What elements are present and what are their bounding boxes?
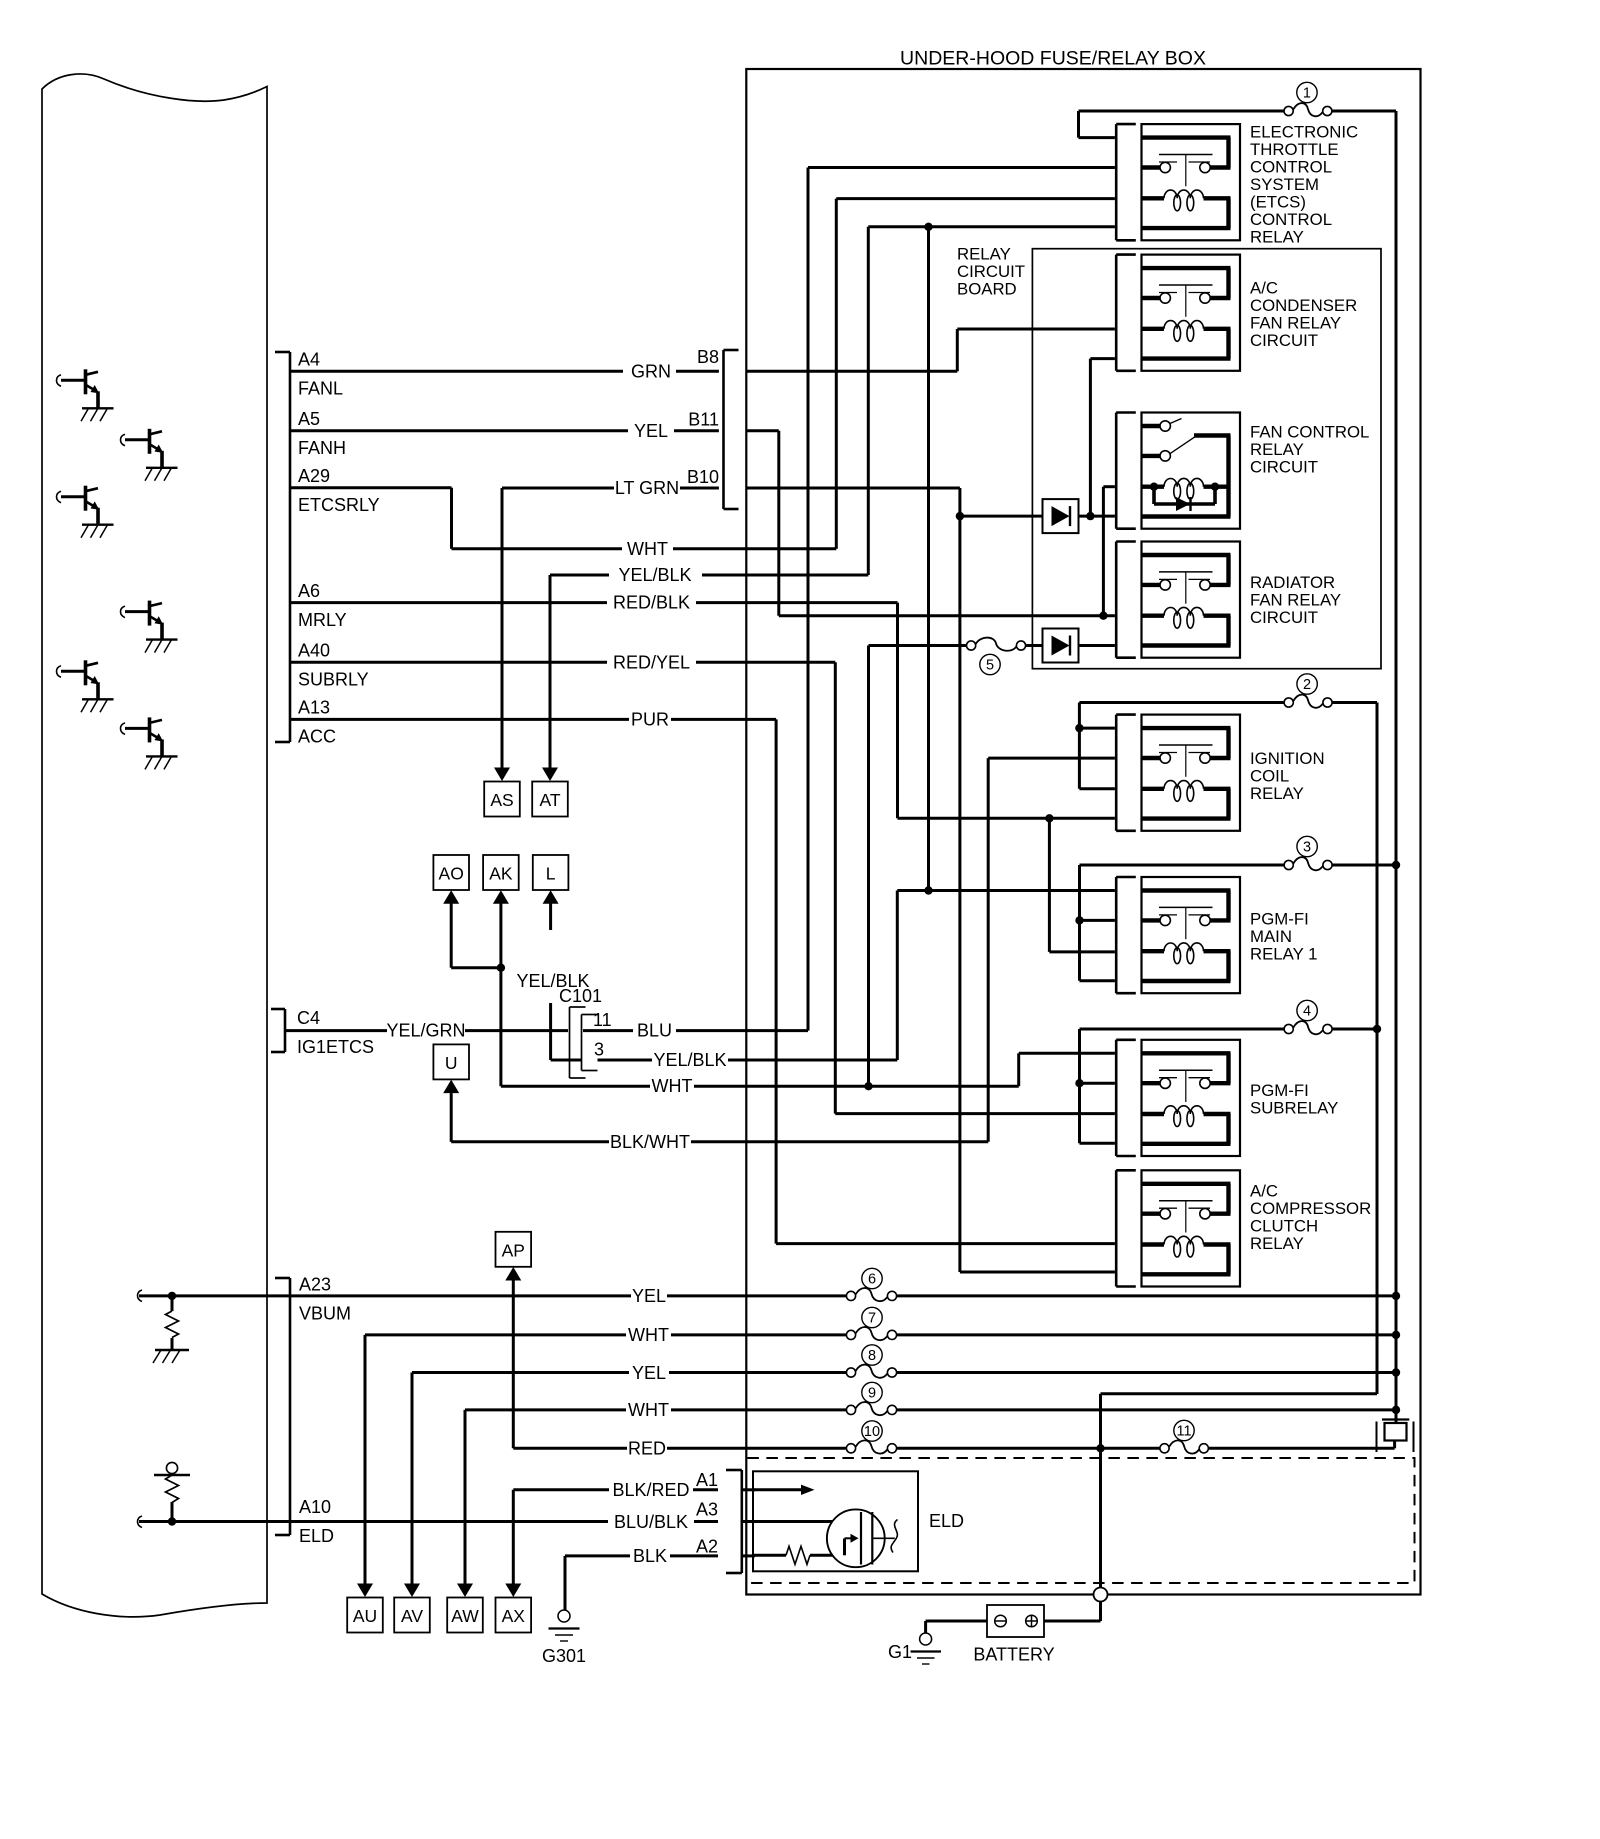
svg-text:AU: AU — [353, 1606, 377, 1626]
radiator fan relay internal feed path — [1142, 553, 1231, 557]
wire YEL row to fuse 8 — [411, 1373, 414, 1591]
fuse 11 — [1160, 1444, 1169, 1453]
svg-text:ELD: ELD — [299, 1526, 334, 1546]
ELD sense resistor with pull-up — [138, 1516, 143, 1528]
transistor Q2 (FANH driver) — [148, 429, 152, 454]
fuse 1 — [1284, 106, 1293, 115]
ground G1 — [920, 1633, 932, 1645]
ignition coil relay coil — [1164, 781, 1203, 789]
ignition coil relay coil feed path — [1142, 787, 1165, 791]
wire YEL/BLK (C101 pin 3) row — [551, 1059, 582, 1062]
svg-text:A3: A3 — [696, 1500, 718, 1520]
svg-text:A29: A29 — [298, 466, 330, 486]
wire battery feed to sub-bus — [1101, 1392, 1378, 1395]
svg-text:ETCSRLY: ETCSRLY — [298, 495, 380, 515]
ECM connector C4 bracket — [284, 1009, 287, 1052]
fan control relay outline — [1142, 413, 1241, 529]
wire WHT jog up to PGM-FI subrelay pin 1 — [1017, 1053, 1020, 1086]
A/C condenser fan relay coil — [1164, 321, 1203, 329]
svg-text:BLK/RED: BLK/RED — [612, 1480, 689, 1500]
wire BLK row — [564, 1556, 567, 1610]
wire RED row through fuse 11 — [1101, 1447, 1160, 1450]
ignition coil relay internal feed path — [1142, 726, 1231, 730]
svg-text:6: 6 — [868, 1272, 876, 1288]
svg-text:PGM-FI: PGM-FI — [1250, 1081, 1309, 1100]
svg-text:AK: AK — [489, 864, 513, 884]
wire PUR riser down to A/C compressor clutch relay coil — [775, 719, 778, 1243]
svg-text:CIRCUIT: CIRCUIT — [1250, 458, 1318, 477]
svg-text:CONTROL: CONTROL — [1250, 157, 1332, 176]
svg-text:WHT: WHT — [628, 1400, 669, 1420]
PGM-FI main relay 1 connector bracket — [1115, 877, 1118, 993]
svg-text:UNDER-HOOD FUSE/RELAY BOX: UNDER-HOOD FUSE/RELAY BOX — [900, 48, 1206, 70]
svg-text:A23: A23 — [299, 1275, 331, 1295]
svg-text:CONTROL: CONTROL — [1250, 210, 1332, 229]
wire BLU/BLK row (A10 ELD) — [290, 1520, 608, 1523]
in-line connector square to battery bus — [1395, 1410, 1398, 1423]
battery positive feed vertical — [1099, 1394, 1102, 1449]
fuse 8 — [846, 1368, 855, 1377]
svg-text:MRLY: MRLY — [298, 610, 347, 630]
fan control relay coil feed path — [1142, 485, 1165, 489]
radiator fan relay contact — [1160, 580, 1170, 590]
ground for Q3 (ETCSRLY driver) — [82, 524, 114, 526]
transistor Q5 (SUBRLY driver) — [84, 660, 88, 685]
wire U shaft down to BLK/WHT row — [450, 1093, 453, 1142]
radiator fan relay coil feed path — [1142, 614, 1165, 618]
svg-text:7: 7 — [868, 1311, 876, 1327]
wire LT GRN (A29 ETCSRLY) row — [502, 487, 614, 490]
svg-text:RELAY: RELAY — [1250, 228, 1304, 247]
fuse 5 — [967, 641, 976, 650]
svg-text:YEL/GRN: YEL/GRN — [386, 1021, 465, 1041]
svg-text:A10: A10 — [299, 1497, 331, 1517]
ground for Q4 (MRLY driver) — [146, 638, 178, 640]
wire YEL inside box to radiator fan relay coil — [746, 429, 779, 432]
svg-text:10: 10 — [864, 1424, 880, 1440]
svg-text:CONDENSER: CONDENSER — [1250, 296, 1357, 315]
svg-text:A2: A2 — [696, 1537, 718, 1557]
transistor Q3 (ETCSRLY driver) — [84, 486, 88, 511]
svg-text:MAIN: MAIN — [1250, 927, 1292, 946]
svg-text:11: 11 — [593, 1010, 612, 1030]
ELD A1 arrow — [753, 1488, 802, 1491]
svg-text:RELAY: RELAY — [1250, 784, 1304, 803]
connector AU — [347, 1598, 383, 1633]
svg-text:C4: C4 — [297, 1008, 320, 1028]
wire battery positive — [1044, 1620, 1101, 1623]
svg-text:B8: B8 — [697, 347, 719, 367]
connector AO — [433, 855, 469, 890]
wire BLK/WHT riser to ignition coil relay pin 2 — [987, 758, 990, 1142]
wire YEL/BLK down to AT connector — [549, 575, 552, 768]
ETCS control relay internal feed path — [1142, 135, 1231, 139]
wire GRN inside box to A/C condenser fan relay coil — [746, 370, 957, 373]
svg-text:BATTERY: BATTERY — [973, 1645, 1054, 1665]
fuse 4 — [1284, 1024, 1293, 1033]
svg-text:RELAY: RELAY — [957, 244, 1011, 263]
svg-text:A/C: A/C — [1250, 1181, 1278, 1200]
svg-text:AS: AS — [490, 790, 513, 810]
svg-text:WHT: WHT — [652, 1076, 693, 1096]
connector AV — [394, 1598, 430, 1633]
wire RED/BLK (A6 MRLY) row — [290, 601, 607, 604]
svg-text:YEL/BLK: YEL/BLK — [618, 565, 691, 585]
wire ETCS pin4 bus down to main relay pin 1 — [927, 227, 930, 891]
diode D3 across fan control relay coil — [1150, 483, 1158, 491]
battery feed open junction on box edge — [1094, 1588, 1108, 1602]
svg-text:A/C: A/C — [1250, 279, 1278, 298]
ETCS control relay coil feed path — [1142, 196, 1165, 200]
ETCS control relay coil — [1164, 190, 1203, 198]
svg-text:FAN RELAY: FAN RELAY — [1250, 591, 1341, 610]
wire battery negative to G1 — [926, 1620, 987, 1623]
wire fuse 2 to battery sub-bus — [1332, 701, 1377, 704]
wire RED/YEL (A40 SUBRLY) row — [290, 661, 607, 664]
ground for Q5 (SUBRLY driver) — [82, 698, 114, 700]
svg-text:3: 3 — [594, 1040, 604, 1060]
wire WHT row to fuse 7 — [364, 1335, 367, 1590]
wire AO branch — [450, 904, 453, 968]
PGM-FI main relay 1 contact — [1160, 915, 1170, 925]
PGM-FI main relay 1 coil — [1164, 943, 1203, 951]
fan control relay contact — [1160, 421, 1170, 431]
A/C compressor clutch relay coil — [1164, 1236, 1203, 1244]
svg-text:A40: A40 — [298, 641, 330, 661]
svg-text:BOARD: BOARD — [957, 279, 1017, 298]
wire WHT (ETCS relay coil) row — [452, 547, 623, 550]
wire branch ignition relay to PGM-FI main relay coil — [1048, 818, 1051, 952]
svg-text:ELD: ELD — [929, 1511, 964, 1531]
ELD A3 wire to sensor gate — [753, 1520, 861, 1523]
svg-text:(ETCS): (ETCS) — [1250, 192, 1306, 211]
svg-text:RED/BLK: RED/BLK — [613, 593, 690, 613]
svg-text:5: 5 — [986, 658, 994, 674]
A/C compressor clutch relay connector bracket — [1115, 1170, 1118, 1286]
A/C condenser fan relay coil feed path — [1142, 327, 1165, 331]
battery — [987, 1605, 1044, 1637]
svg-text:B11: B11 — [688, 410, 719, 430]
wire RED/YEL riser down to PGM-FI subrelay coil — [834, 662, 837, 1113]
svg-text:FANL: FANL — [298, 379, 343, 399]
wire YEL (A23 VBUM) row — [290, 1294, 631, 1297]
svg-text:CIRCUIT: CIRCUIT — [1250, 331, 1318, 350]
wire GRN (A4 FANL) row — [290, 370, 623, 373]
connector AK — [483, 855, 519, 890]
wire fuse 1 to battery bus — [1332, 110, 1396, 113]
svg-text:SUBRLY: SUBRLY — [298, 670, 369, 690]
wire WHT row to fuse 9 — [464, 1410, 467, 1590]
svg-text:9: 9 — [868, 1386, 876, 1402]
connector AX — [496, 1598, 532, 1633]
relay circuit board outline — [1032, 249, 1381, 669]
svg-text:CIRCUIT: CIRCUIT — [1250, 608, 1318, 627]
svg-text:YEL: YEL — [634, 421, 668, 441]
fuse 3 — [1284, 860, 1293, 869]
svg-text:WHT: WHT — [627, 539, 668, 559]
PGM-FI subrelay internal feed path — [1142, 1051, 1231, 1055]
svg-text:IG1ETCS: IG1ETCS — [297, 1037, 374, 1057]
svg-text:3: 3 — [1303, 840, 1311, 856]
svg-text:AW: AW — [451, 1606, 479, 1626]
wire RED row to fuse 10 — [512, 1279, 515, 1448]
svg-text:COMPRESSOR: COMPRESSOR — [1250, 1199, 1371, 1218]
ECM connector A bracket (upper) — [289, 352, 292, 742]
diode D2 (radiator fan relay feed) — [1043, 629, 1079, 663]
A/C compressor clutch relay internal feed path — [1142, 1182, 1231, 1186]
ignition coil relay connector bracket — [1115, 715, 1118, 831]
fuse 7 — [846, 1330, 855, 1339]
ground for Q1 (FANL driver) — [82, 407, 114, 409]
ground G301 — [558, 1610, 570, 1622]
A/C compressor clutch relay coil feed path — [1142, 1242, 1165, 1246]
PGM-FI subrelay outline — [1142, 1040, 1241, 1156]
svg-text:AV: AV — [401, 1606, 423, 1626]
VBUM sense resistor to ground — [138, 1290, 143, 1302]
connector C101 — [569, 1007, 571, 1078]
fuse 2 feed loop to ignition coil relay — [1079, 701, 1284, 704]
svg-text:YEL: YEL — [632, 1286, 666, 1306]
ignition coil relay outline — [1142, 715, 1241, 831]
wire diode D1 row to fan control relay pin 4 — [960, 515, 1043, 518]
wire YEL/BLK riser to ETCS relay pin 4 — [867, 227, 870, 575]
wire RED/BLK riser down to ignition coil relay pin 4 — [896, 603, 899, 819]
svg-text:ACC: ACC — [298, 727, 336, 747]
svg-text:ELECTRONIC: ELECTRONIC — [1250, 122, 1358, 141]
transistor Q1 (FANL driver) — [84, 369, 88, 394]
svg-text:2: 2 — [1303, 677, 1311, 693]
wire fuse 3 to battery bus — [1332, 864, 1394, 867]
svg-text:AT: AT — [539, 790, 560, 810]
PGM-FI subrelay coil feed path — [1142, 1112, 1165, 1116]
svg-text:G301: G301 — [542, 1646, 586, 1666]
svg-text:SUBRELAY: SUBRELAY — [1250, 1098, 1338, 1117]
wire BLU / YEL-GRN (C4 IG1ETCS) row — [285, 1029, 387, 1032]
radiator fan relay coil — [1164, 607, 1203, 615]
PGM-FI subrelay connector bracket — [1115, 1040, 1118, 1156]
svg-text:RED: RED — [628, 1439, 666, 1459]
transistor Q6 (ACC driver) — [148, 717, 152, 742]
svg-text:FAN CONTROL: FAN CONTROL — [1250, 423, 1369, 442]
dashed ELD compartment outline — [747, 1458, 1414, 1583]
ground for VBUM resistor — [155, 1349, 189, 1351]
PGM-FI subrelay contact — [1160, 1078, 1170, 1088]
svg-text:AO: AO — [439, 864, 464, 884]
svg-text:G1: G1 — [888, 1642, 912, 1662]
fuse 9 — [846, 1405, 855, 1414]
A/C condenser fan relay outline — [1142, 255, 1241, 371]
svg-text:CIRCUIT: CIRCUIT — [957, 262, 1025, 281]
fan control relay coil — [1164, 478, 1203, 486]
svg-text:CLUTCH: CLUTCH — [1250, 1217, 1318, 1236]
svg-text:U: U — [445, 1053, 458, 1073]
A/C compressor clutch relay outline — [1142, 1170, 1241, 1286]
svg-text:B10: B10 — [687, 467, 719, 487]
fuse 2 — [1284, 698, 1293, 707]
wire WHT (AO/AK) row — [501, 1085, 650, 1088]
radiator fan relay outline — [1142, 542, 1241, 658]
svg-text:YEL/BLK: YEL/BLK — [653, 1050, 726, 1070]
fuse 4 feed loop to PGM-FI subrelay — [1080, 1028, 1285, 1031]
connector L — [533, 855, 569, 890]
ETCS control relay contact — [1160, 162, 1170, 172]
ELD sensor (hall element) — [827, 1509, 885, 1567]
radiator fan relay connector bracket — [1115, 542, 1118, 658]
ECM connector A bracket (lower) — [289, 1278, 292, 1535]
ground for Q2 (FANH driver) — [146, 467, 178, 469]
wire BLK/RED row — [512, 1490, 515, 1584]
fan control relay connector bracket — [1115, 413, 1118, 529]
wire L shaft down to C101 pin 3 — [549, 904, 552, 931]
connector AW — [447, 1598, 483, 1633]
wire BLK/WHT row — [451, 1140, 609, 1143]
svg-text:RELAY: RELAY — [1250, 440, 1304, 459]
ETCS control relay connector bracket — [1115, 124, 1118, 240]
wire fuse 4 to battery sub-bus — [1332, 1028, 1375, 1031]
svg-text:8: 8 — [868, 1348, 876, 1364]
svg-text:YEL/BLK: YEL/BLK — [516, 971, 589, 991]
fuse 1 feed loop to ETCS relay pin 1 — [1079, 110, 1285, 113]
svg-text:FANH: FANH — [298, 438, 346, 458]
fuse 10 — [846, 1444, 855, 1453]
PGM-FI main relay 1 coil feed path — [1142, 949, 1165, 953]
svg-text:BLK: BLK — [633, 1546, 667, 1566]
svg-text:FAN RELAY: FAN RELAY — [1250, 314, 1341, 333]
svg-text:GRN: GRN — [631, 362, 671, 382]
ECM/PCM torn-edge outline — [42, 74, 267, 1617]
svg-text:THROTTLE: THROTTLE — [1250, 140, 1339, 159]
svg-text:RELAY 1: RELAY 1 — [1250, 945, 1317, 964]
wire AK shaft down to WHT row — [499, 904, 502, 1087]
wire WHT riser to fuse 5 — [867, 646, 870, 1087]
svg-text:A5: A5 — [298, 409, 320, 429]
battery bus vertical — [1395, 111, 1398, 1420]
svg-text:WHT: WHT — [628, 1325, 669, 1345]
svg-text:AX: AX — [502, 1606, 526, 1626]
svg-text:COIL: COIL — [1250, 767, 1289, 786]
B connector bracket — [722, 350, 725, 509]
svg-text:PUR: PUR — [631, 710, 669, 730]
A/C condenser fan relay internal feed path — [1142, 266, 1231, 270]
wire riser diode D1 to A/C condenser fan relay pin 4 — [1089, 359, 1092, 516]
svg-text:RED/YEL: RED/YEL — [613, 653, 690, 673]
wire YEL (A5 FANH) row — [290, 429, 628, 432]
wire YEL/BLK (ETCS relay) row — [550, 574, 609, 577]
connector U (BLK/WHT) — [433, 1044, 469, 1079]
connector AS (LT GRN) — [484, 782, 520, 817]
wire ETCS relay output riser — [807, 168, 810, 1031]
svg-text:RADIATOR: RADIATOR — [1250, 573, 1335, 592]
svg-text:BLU/BLK: BLU/BLK — [614, 1512, 688, 1532]
A/C compressor clutch relay contact — [1160, 1209, 1170, 1219]
wire A29 ETCSRLY row — [290, 486, 452, 489]
svg-text:A1: A1 — [696, 1470, 718, 1490]
svg-text:A13: A13 — [298, 698, 330, 718]
battery sub-bus vertical — [1376, 703, 1379, 1394]
wire LT GRN inside box down to A/C compressor clutch relay — [746, 487, 960, 490]
ground for Q6 (ACC driver) — [146, 755, 178, 757]
svg-text:L: L — [546, 864, 556, 884]
svg-text:RELAY: RELAY — [1250, 1234, 1304, 1253]
svg-text:4: 4 — [1303, 1004, 1311, 1020]
connector AT (YEL/BLK) — [532, 782, 568, 817]
svg-text:LT GRN: LT GRN — [615, 478, 679, 498]
wires into ELD box — [742, 1488, 755, 1491]
ignition coil relay contact — [1160, 753, 1170, 763]
wire PUR (A13 ACC) row — [290, 718, 629, 721]
connector AP (RED) — [496, 1232, 532, 1267]
svg-text:1: 1 — [1303, 86, 1311, 102]
wire LT GRN down to AS connector — [501, 488, 504, 768]
svg-text:VBUM: VBUM — [299, 1304, 351, 1324]
svg-text:A6: A6 — [298, 581, 320, 601]
svg-text:PGM-FI: PGM-FI — [1250, 909, 1309, 928]
wire WHT riser to ETCS relay coil — [835, 199, 838, 549]
wire fan control relay coil to radiator fan relay coil — [1103, 485, 1115, 488]
wire YEL/BLK riser to PGM-FI main relay pin 1 — [896, 891, 899, 1061]
diode D1 (fan relay feed) — [1043, 499, 1079, 533]
svg-text:11: 11 — [1176, 1424, 1191, 1440]
ELD box — [753, 1471, 918, 1571]
A/C condenser fan relay contact — [1160, 293, 1170, 303]
under-hood fuse/relay box outline — [746, 69, 1420, 1595]
fuse 3 feed loop to PGM-FI main relay — [1080, 864, 1285, 867]
ELD connector bracket — [740, 1470, 743, 1573]
svg-text:BLK/WHT: BLK/WHT — [610, 1132, 690, 1152]
svg-text:YEL: YEL — [632, 1363, 666, 1383]
A/C condenser fan relay connector bracket — [1115, 255, 1118, 371]
wire fuse 5 feed row to radiator fan relay — [869, 644, 967, 647]
ETCS control relay outline — [1142, 124, 1241, 240]
PGM-FI subrelay coil — [1164, 1106, 1203, 1114]
ELD A2 wire with resistor — [753, 1554, 786, 1557]
svg-text:SYSTEM: SYSTEM — [1250, 175, 1319, 194]
PGM-FI main relay 1 outline — [1142, 877, 1241, 993]
svg-text:BLU: BLU — [637, 1021, 672, 1041]
PGM-FI main relay 1 internal feed path — [1142, 888, 1231, 892]
svg-text:A4: A4 — [298, 350, 320, 370]
svg-text:AP: AP — [502, 1240, 525, 1260]
fuse 6 — [846, 1291, 855, 1300]
svg-text:IGNITION: IGNITION — [1250, 749, 1325, 768]
transistor Q4 (MRLY driver) — [148, 601, 152, 626]
fan control relay internal feed path — [1142, 424, 1161, 428]
